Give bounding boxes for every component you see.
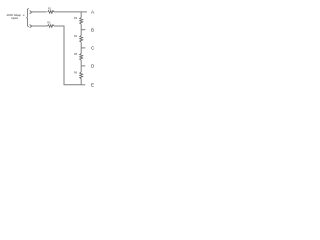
svg-text:R6: R6 bbox=[74, 71, 78, 75]
svg-text:R5: R5 bbox=[74, 52, 78, 56]
svg-text:input: input bbox=[11, 16, 18, 20]
svg-text:R4: R4 bbox=[74, 34, 78, 38]
svg-text:R2: R2 bbox=[47, 21, 51, 25]
svg-text:E: E bbox=[91, 83, 94, 88]
svg-text:B: B bbox=[91, 28, 94, 33]
svg-text:R3: R3 bbox=[74, 16, 78, 20]
svg-text:R1: R1 bbox=[48, 6, 52, 10]
